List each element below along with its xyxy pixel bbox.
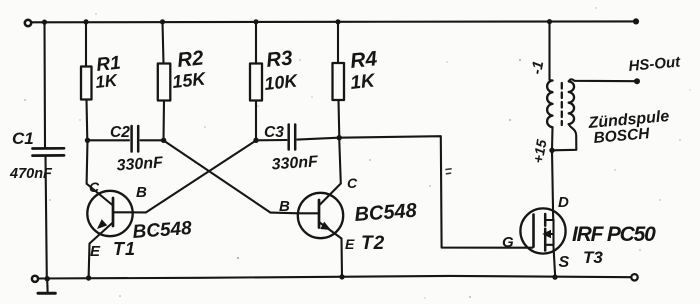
terminal bottom-right xyxy=(631,274,637,280)
node HS-Out terminal dot xyxy=(634,78,640,84)
svg-text:C2: C2 xyxy=(110,124,130,141)
transistor T1 xyxy=(87,141,146,278)
resistor R3 xyxy=(250,22,262,140)
transformer primary winding xyxy=(547,81,552,128)
svg-text:B: B xyxy=(136,184,147,201)
label B pin T2 xyxy=(279,198,290,215)
wire T2 base lead xyxy=(271,212,299,215)
node transformer bottom junction xyxy=(549,148,554,153)
svg-text:1K: 1K xyxy=(94,71,119,92)
label D pin T3 xyxy=(558,194,569,211)
node junction dot R3 top xyxy=(253,19,258,24)
label 15K xyxy=(171,68,208,92)
label HS-Out xyxy=(628,53,682,75)
label 10K xyxy=(263,70,300,94)
wire bottom ground rail xyxy=(38,276,631,279)
resistor R4 xyxy=(333,22,345,138)
terminal top-left xyxy=(25,20,31,26)
resistor R1 xyxy=(81,22,92,140)
transistor T3 mosfet xyxy=(520,208,565,253)
capacitor C2 xyxy=(132,126,139,152)
svg-text:1K: 1K xyxy=(349,70,377,94)
svg-text:E: E xyxy=(90,243,101,260)
capacitor C1 xyxy=(33,148,65,155)
label R3 xyxy=(265,46,294,72)
label E pin T2 xyxy=(345,236,355,252)
label +15 terminal xyxy=(530,138,550,164)
transformer secondary winding xyxy=(569,81,574,124)
wire T2 collector to gate of T3 xyxy=(339,136,532,248)
node terminal dot top-right xyxy=(633,18,639,24)
resistor R2 xyxy=(158,22,171,140)
node junction dot C1 top xyxy=(42,20,47,25)
label 330nF (C3) xyxy=(271,153,320,173)
svg-text:R4: R4 xyxy=(349,47,378,73)
svg-text:15K: 15K xyxy=(171,68,208,92)
capacitor C3 xyxy=(289,125,296,150)
label 1K (R4) xyxy=(349,70,377,94)
svg-text:T2: T2 xyxy=(361,233,385,254)
wire primary bottom lead xyxy=(551,127,554,150)
wire top supply rail xyxy=(31,20,636,23)
wire C2 left xyxy=(88,139,130,141)
svg-text:T3: T3 xyxy=(583,248,603,267)
wire transformer top feed xyxy=(550,22,553,81)
svg-text:330nF: 330nF xyxy=(271,153,320,173)
svg-text:E: E xyxy=(345,236,355,252)
wire cross-coupling C3 to T1 base xyxy=(146,141,256,213)
wire T3 drain lead xyxy=(552,150,553,219)
node junction dot R2 top xyxy=(160,19,165,24)
label 330nF (C2) xyxy=(116,154,165,174)
label S pin T3 xyxy=(559,254,570,271)
wire T3 source lead xyxy=(553,245,555,277)
wire C1 top lead xyxy=(43,22,46,147)
label BC548 (T1) xyxy=(132,218,193,243)
label E pin T1 xyxy=(90,243,101,260)
svg-text:D: D xyxy=(558,194,569,211)
node T1 emitter bottom junction xyxy=(86,275,91,280)
svg-text:C: C xyxy=(347,175,358,191)
label IRF PC50 xyxy=(572,223,656,246)
svg-text:BC548: BC548 xyxy=(354,200,419,226)
label C2 xyxy=(110,124,130,141)
svg-text:330nF: 330nF xyxy=(116,154,165,174)
label G pin T3 xyxy=(502,234,514,251)
label Zündspule xyxy=(587,108,670,132)
node junction dot C1 bottom xyxy=(45,276,50,281)
svg-text:R3: R3 xyxy=(265,46,294,72)
svg-text:C3: C3 xyxy=(264,124,284,141)
svg-text:B: B xyxy=(279,198,290,215)
node junction dot transformer top xyxy=(547,19,552,24)
svg-text:BC548: BC548 xyxy=(132,218,193,243)
scan mark xyxy=(446,169,451,174)
label B pin T1 xyxy=(136,184,147,201)
label T3 xyxy=(583,248,603,267)
label -1 terminal xyxy=(528,60,547,76)
node junction dot R4 top xyxy=(335,19,340,24)
wire cross-coupling C2 to T2 base xyxy=(164,141,271,213)
wire secondary bottom lead xyxy=(552,124,576,150)
wire C3 left xyxy=(256,139,287,141)
label R2 xyxy=(176,46,205,72)
svg-text:S: S xyxy=(559,254,570,271)
label 470nF xyxy=(9,166,53,182)
label BOSCH xyxy=(593,125,651,147)
svg-text:C1: C1 xyxy=(12,129,34,148)
wire secondary top to HS-Out xyxy=(569,79,637,81)
transformer core xyxy=(561,83,563,125)
node T2 collector junction xyxy=(337,135,342,140)
node T2 base net junction xyxy=(161,138,166,143)
node T3 source bottom junction xyxy=(552,274,557,279)
transistor T2 xyxy=(298,138,343,277)
svg-text:10K: 10K xyxy=(263,70,300,94)
node T1 base net junction xyxy=(253,138,258,143)
label C pin T1 xyxy=(89,179,100,195)
node junction dot R1 top xyxy=(83,19,88,24)
svg-text:C: C xyxy=(89,179,100,195)
node T2 emitter bottom junction xyxy=(339,274,344,279)
svg-text:470nF: 470nF xyxy=(9,166,53,182)
ground xyxy=(38,279,55,293)
label T2 xyxy=(361,233,385,254)
label 1K (R1) xyxy=(94,71,119,92)
wire C2 right xyxy=(141,139,164,141)
terminal bottom-left xyxy=(32,276,38,282)
svg-text:G: G xyxy=(502,234,514,251)
label C3 xyxy=(264,124,284,141)
svg-text:IRF PC50: IRF PC50 xyxy=(572,223,656,246)
label R4 xyxy=(349,47,378,73)
wire C1 bottom lead xyxy=(46,156,47,278)
node T1 collector junction xyxy=(85,138,90,143)
label C pin T2 xyxy=(347,175,358,191)
label R1 xyxy=(95,53,121,76)
label BC548 (T2) xyxy=(354,200,419,226)
label T1 xyxy=(113,239,136,259)
label C1 xyxy=(12,129,34,148)
wire C3 right xyxy=(297,138,338,140)
